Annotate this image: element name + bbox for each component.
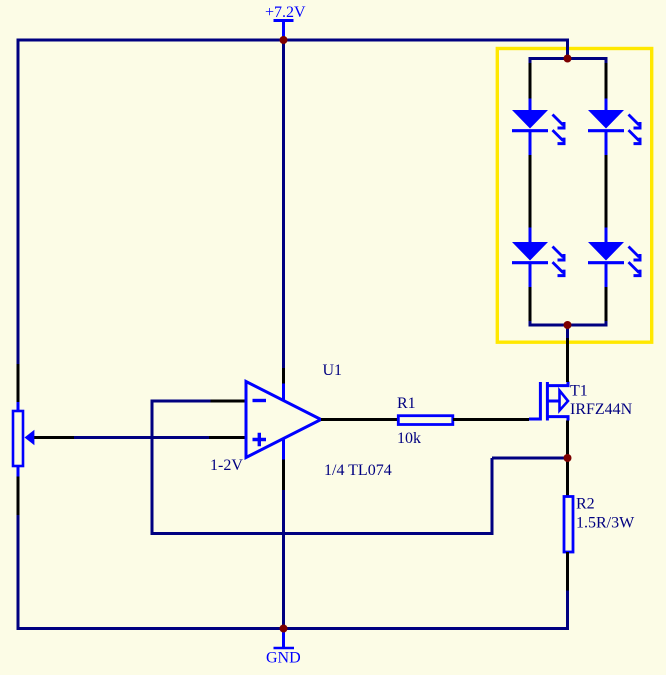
svg-text:R2: R2	[576, 496, 595, 513]
wire: R2 to bottom rail (navy)	[566, 591, 569, 631]
wire: center vertical lower (navy)	[282, 490, 285, 629]
LED enclosure (yellow box)	[497, 49, 651, 343]
wire: wiper to op-amp + (black pin at pot)	[34, 436, 74, 439]
wire: LED box bottom horizontal	[530, 324, 606, 327]
wire: LED box bottom stub (navy)	[566, 325, 569, 338]
wire: R2 bottom pin (black)	[566, 552, 569, 591]
wire: feedback to source junction	[492, 457, 568, 460]
wire: top rail	[17, 39, 568, 42]
wire: left vertical lower (navy)	[17, 515, 20, 630]
svg-text:GND: GND	[266, 650, 301, 667]
wire: op-amp + input pin (black)	[209, 436, 246, 439]
wire: feedback left horizontal (navy)	[152, 400, 211, 403]
wire: feedback bottom horizontal	[151, 532, 493, 535]
junction at +7.2V node	[280, 36, 288, 44]
wire: pot top pin (black)	[17, 364, 20, 402]
potentiometer	[13, 402, 34, 477]
wire: junction to R2 (black)	[566, 458, 569, 496]
junction at LED box bottom	[564, 321, 572, 329]
op-amp V- pin stub (blue)	[282, 439, 285, 460]
op-amp U1	[246, 382, 321, 458]
svg-text:T1: T1	[570, 383, 588, 400]
wire: right drop into LED box	[566, 39, 569, 59]
svg-text:U1: U1	[323, 362, 343, 379]
junction at LED box top	[564, 55, 572, 63]
wire: bottom rail	[17, 627, 568, 630]
junction at GND node	[280, 625, 288, 633]
wire: right column segments	[605, 57, 608, 327]
LED D4	[588, 228, 640, 288]
wire: drain up to LED box (black)	[566, 338, 569, 382]
wire: op-amp output to R1 (black)	[321, 418, 398, 421]
svg-text:1-2V: 1-2V	[210, 457, 243, 474]
transistor T1 (IRFZ44N)	[529, 382, 568, 421]
LED D3	[512, 228, 564, 288]
svg-text:1/4 TL074: 1/4 TL074	[324, 462, 392, 479]
svg-text:10k: 10k	[397, 430, 421, 447]
wire: source down to junction (black)	[566, 421, 569, 456]
wire: feedback left vertical	[151, 400, 154, 534]
svg-text:1.5R/3W: 1.5R/3W	[576, 515, 635, 532]
svg-text:R1: R1	[397, 395, 416, 412]
wire: center vertical upper (navy)	[282, 40, 285, 368]
wire: left column segments	[529, 57, 532, 327]
LED D2	[588, 99, 640, 156]
wire: op-amp V+ pin (black)	[282, 368, 285, 384]
wire: wiper to op-amp + (navy)	[74, 436, 209, 439]
resistor R1	[398, 416, 453, 425]
svg-text:IRFZ44N: IRFZ44N	[570, 401, 633, 418]
wire: op-amp - input pin (black)	[209, 400, 246, 403]
svg-text:+7.2V: +7.2V	[265, 4, 306, 21]
power port +7.2V	[265, 4, 306, 40]
wire: feedback right vertical	[491, 458, 494, 535]
ground GND	[266, 629, 301, 667]
junction at source/R2 node	[564, 454, 572, 462]
wire: R1 to gate (black)	[453, 418, 529, 421]
wire: left vertical upper (navy)	[17, 39, 20, 365]
wire: pot bottom pin (black)	[17, 477, 20, 516]
wire: LED box top horizontal	[530, 57, 606, 60]
wire: op-amp V- pin (black)	[282, 460, 285, 491]
resistor R2	[564, 497, 573, 553]
op-amp V+ pin stub (blue)	[282, 384, 285, 401]
LED D1	[512, 99, 564, 156]
